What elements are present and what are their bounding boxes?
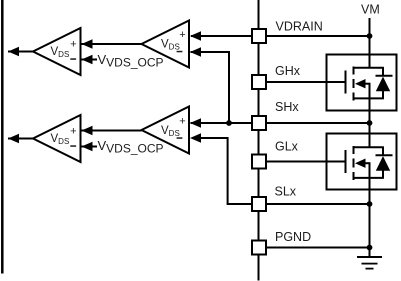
svg-text:SLx: SLx — [275, 185, 297, 199]
svg-text:+: + — [179, 29, 185, 41]
svg-text:GHx: GHx — [275, 64, 301, 78]
svg-text:VVDS_OCP: VVDS_OCP — [98, 138, 164, 155]
svg-text:SHx: SHx — [275, 100, 299, 114]
svg-text:+: + — [179, 116, 185, 128]
svg-text:GLx: GLx — [275, 140, 299, 154]
svg-text:+: + — [70, 125, 76, 137]
svg-text:+: + — [70, 38, 76, 50]
svg-text:VDRAIN: VDRAIN — [276, 20, 323, 34]
svg-text:VVDS_OCP: VVDS_OCP — [98, 52, 164, 69]
svg-text:VM: VM — [361, 3, 380, 17]
svg-text:PGND: PGND — [275, 230, 311, 244]
